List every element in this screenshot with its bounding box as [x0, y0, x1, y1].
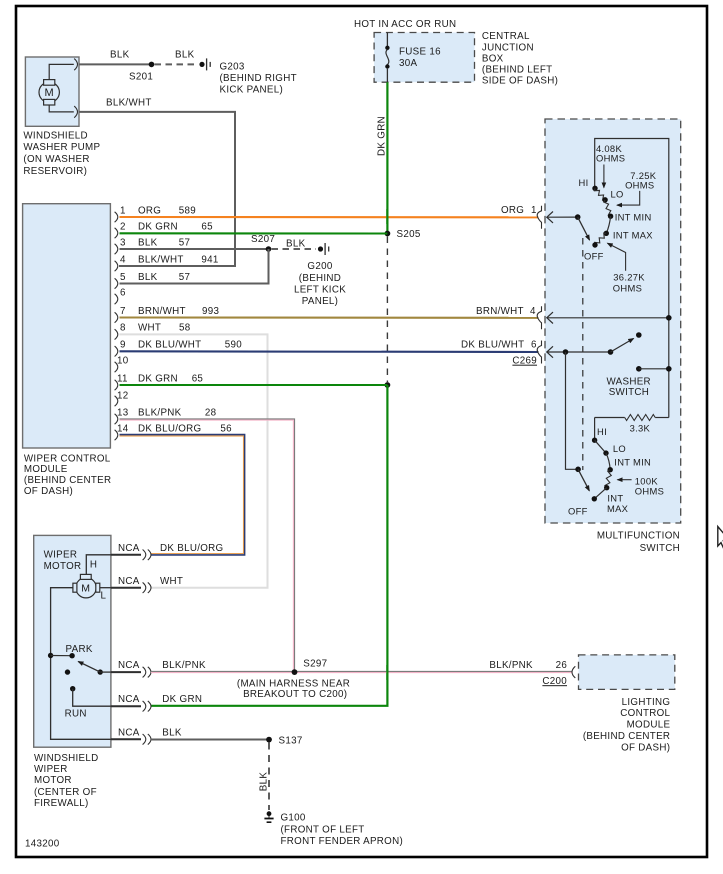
svg-text:DK GRN: DK GRN — [377, 116, 388, 156]
svg-text:10: 10 — [117, 355, 129, 366]
svg-text:S137: S137 — [279, 736, 303, 747]
svg-text:NCA: NCA — [118, 660, 140, 671]
svg-text:NCA: NCA — [118, 694, 140, 705]
MFS connector bumps C269 — [537, 206, 541, 364]
svg-text:(BEHIND CENTER: (BEHIND CENTER — [583, 731, 670, 742]
svg-text:13: 13 — [117, 407, 129, 418]
svg-text:993: 993 — [202, 306, 219, 317]
svg-text:MOTOR: MOTOR — [44, 561, 82, 572]
contact INT MIN (lower) — [608, 467, 613, 472]
svg-text:56: 56 — [220, 423, 232, 434]
svg-text:KICK PANEL): KICK PANEL) — [220, 85, 284, 96]
wire BLK/WHT pump to module pin 4 — [79, 112, 235, 266]
svg-text:BLK: BLK — [110, 49, 130, 60]
link INT MAX-OFF (lower) — [594, 488, 606, 499]
svg-text:LO: LO — [611, 189, 624, 200]
svg-text:INT MAX: INT MAX — [613, 230, 653, 241]
ground G100 — [264, 811, 273, 822]
multifunction switch dashed box — [545, 119, 681, 523]
fuse 16 30A — [385, 33, 389, 83]
svg-text:L: L — [101, 591, 107, 602]
svg-text:BLK: BLK — [259, 772, 270, 792]
svg-text:11: 11 — [117, 373, 128, 384]
contact OFF (upper) — [592, 242, 597, 247]
svg-text:(BEHIND: (BEHIND — [299, 273, 341, 284]
svg-text:57: 57 — [179, 272, 191, 283]
svg-text:7: 7 — [120, 306, 126, 317]
svg-text:30A: 30A — [399, 58, 417, 69]
wire BLK motor to S137 — [151, 739, 267, 741]
junction dot right rail pin4 — [666, 315, 672, 321]
resistor INT MAX-OFF — [595, 233, 607, 245]
svg-text:M: M — [45, 87, 54, 99]
svg-text:DK GRN: DK GRN — [162, 694, 202, 705]
svg-text:C200: C200 — [542, 676, 567, 687]
svg-text:(BEHIND CENTER: (BEHIND CENTER — [24, 475, 111, 486]
svg-text:INT MIN: INT MIN — [615, 212, 652, 223]
svg-text:CONTROL: CONTROL — [620, 708, 670, 719]
wire: motor top lead — [49, 64, 74, 79]
svg-text:58: 58 — [179, 323, 191, 334]
pin 13 wire BLK/PNK 28 to S297 — [120, 419, 295, 670]
pump connector pin bottom — [74, 106, 77, 118]
resistor LO-INT MIN — [604, 200, 611, 216]
wire BLK dashed S207 to G200 — [272, 248, 317, 250]
svg-text:HOT IN ACC OR RUN: HOT IN ACC OR RUN — [354, 19, 456, 30]
wiper motor box — [34, 535, 111, 747]
wire: motor bottom lead — [49, 105, 74, 112]
svg-text:S297: S297 — [303, 658, 327, 669]
wire H terminal to box edge — [86, 555, 111, 575]
module pin connectors 1-14 — [115, 212, 118, 440]
svg-text:OFF: OFF — [584, 250, 604, 261]
svg-text:ORG: ORG — [501, 205, 524, 216]
svg-text:941: 941 — [201, 254, 218, 265]
svg-text:BLK: BLK — [175, 49, 195, 60]
pin 14 wire DK BLU/ORG 56 to motor — [120, 435, 245, 555]
svg-text:PANEL): PANEL) — [302, 296, 338, 307]
svg-text:4: 4 — [120, 254, 126, 265]
splice S207 — [266, 246, 272, 252]
svg-text:OHMS: OHMS — [635, 486, 664, 497]
wire pin6 branch down to lower arm pivot — [566, 352, 579, 469]
pin 5 wire BLK 57 to S207 — [120, 249, 269, 284]
svg-text:12: 12 — [117, 391, 129, 402]
svg-text:14: 14 — [117, 423, 129, 434]
MFS pin 6 arrow + wire to washer switch — [547, 346, 611, 357]
svg-text:LIGHTING: LIGHTING — [622, 697, 671, 708]
pin 7 wire BRN/WHT 993 — [120, 316, 539, 318]
svg-text:8: 8 — [120, 323, 126, 334]
svg-text:36.27K: 36.27K — [613, 272, 645, 283]
wiper control module box — [23, 204, 111, 448]
svg-text:6: 6 — [531, 340, 537, 351]
svg-text:DK GRN: DK GRN — [138, 373, 178, 384]
svg-text:(BEHIND RIGHT: (BEHIND RIGHT — [220, 73, 297, 84]
svg-text:28: 28 — [205, 407, 217, 418]
svg-text:3: 3 — [120, 237, 126, 248]
svg-text:OHMS: OHMS — [596, 153, 625, 164]
wire DK GRN down to wiper motor — [151, 385, 388, 706]
svg-text:OF DASH): OF DASH) — [621, 742, 670, 753]
svg-text:BLK: BLK — [138, 237, 158, 248]
svg-text:WIPER: WIPER — [44, 550, 78, 561]
svg-text:SWITCH: SWITCH — [609, 387, 649, 398]
svg-text:589: 589 — [179, 205, 196, 216]
wire 3.3K to HI (lower) — [594, 418, 596, 441]
svg-text:WIPER: WIPER — [34, 764, 68, 775]
central junction box (dashed) — [374, 33, 474, 83]
resistor HI-LO — [595, 188, 606, 200]
park/run switch — [48, 653, 53, 658]
svg-text:6: 6 — [120, 287, 126, 298]
svg-text:NCA: NCA — [118, 576, 140, 587]
svg-text:(ON WASHER: (ON WASHER — [23, 154, 89, 165]
ground G200 — [318, 243, 329, 255]
MFS pin 1 arrow + wire to switch arm pivot — [547, 212, 578, 223]
svg-text:M: M — [81, 583, 90, 595]
resistor 3.3K — [595, 417, 625, 419]
pin 9 wire DK BLU/WHT 590 — [120, 350, 539, 353]
svg-text:(FRONT OF LEFT: (FRONT OF LEFT — [281, 824, 365, 835]
svg-text:FUSE 16: FUSE 16 — [399, 47, 441, 58]
wiper motor M2 — [73, 574, 100, 598]
svg-text:1: 1 — [531, 205, 537, 216]
lighting control module box (dashed) — [579, 655, 675, 690]
svg-text:3.3K: 3.3K — [630, 423, 651, 434]
svg-text:BLK/WHT: BLK/WHT — [106, 97, 152, 108]
svg-text:65: 65 — [201, 221, 213, 232]
svg-text:BRN/WHT: BRN/WHT — [476, 306, 524, 317]
wire DK GRN crossing overlay at BLK/PNK row — [386, 665, 388, 680]
contact LO (lower) — [603, 450, 608, 455]
wire loop: HI up over to right rail — [595, 139, 669, 418]
svg-text:DK BLU/ORG: DK BLU/ORG — [160, 543, 223, 554]
svg-text:RESERVOIR): RESERVOIR) — [23, 166, 87, 177]
svg-text:HI: HI — [579, 177, 589, 188]
svg-text:DK GRN: DK GRN — [138, 221, 178, 232]
svg-text:WINDSHIELD: WINDSHIELD — [34, 753, 99, 764]
pin 11 wire DK GRN 65 — [120, 384, 388, 386]
wire BLK/PNK motor to C200 — [151, 671, 573, 673]
contact HI (lower) — [592, 438, 597, 443]
svg-text:(MAIN HARNESS NEAR: (MAIN HARNESS NEAR — [237, 678, 350, 689]
contact LO (upper) — [602, 197, 607, 202]
svg-text:SIDE OF DASH): SIDE OF DASH) — [482, 76, 558, 87]
wire BLK dashed S201 to G203 — [155, 63, 199, 65]
washer switch arm — [608, 349, 614, 355]
svg-text:LO: LO — [613, 443, 626, 454]
svg-text:(BEHIND LEFT: (BEHIND LEFT — [482, 65, 553, 76]
svg-text:FRONT FENDER APRON): FRONT FENDER APRON) — [281, 836, 404, 847]
splice S201 — [149, 62, 155, 68]
contact INT MAX (lower) — [604, 485, 609, 490]
svg-text:65: 65 — [192, 373, 204, 384]
pin 3 wire BLK 57 to S207 — [120, 248, 269, 250]
washer switch fixed contact — [636, 366, 642, 372]
contact INT MIN (upper) — [608, 214, 613, 219]
svg-text:BLK: BLK — [138, 272, 158, 283]
contact INT MAX (upper) — [604, 231, 609, 236]
svg-text:OF DASH): OF DASH) — [24, 486, 73, 497]
svg-text:LEFT KICK: LEFT KICK — [294, 284, 346, 295]
svg-text:DK BLU/WHT: DK BLU/WHT — [138, 340, 201, 351]
svg-text:590: 590 — [225, 340, 242, 351]
svg-text:G200: G200 — [307, 261, 332, 272]
ground G203 — [199, 58, 210, 70]
svg-text:RUN: RUN — [65, 709, 87, 720]
wiper switch arm (lower) — [575, 467, 581, 473]
C200 connector arc — [572, 666, 575, 678]
svg-text:CENTRAL: CENTRAL — [482, 31, 530, 42]
wiper switch arm (upper) — [575, 214, 581, 220]
contact HI (upper) — [592, 186, 597, 191]
svg-text:BOX: BOX — [482, 53, 504, 64]
windshield washer pump box — [25, 57, 79, 126]
svg-text:OHMS: OHMS — [613, 283, 642, 294]
svg-text:WHT: WHT — [138, 323, 161, 334]
link LO-INT MIN (lower) — [606, 453, 610, 470]
svg-text:JUNCTION: JUNCTION — [482, 42, 534, 53]
wire dashed S205 down — [386, 237, 388, 383]
svg-text:5: 5 — [120, 272, 126, 283]
svg-text:INT MIN: INT MIN — [614, 457, 651, 468]
svg-text:S207: S207 — [251, 234, 275, 245]
wire L terminal to box edge — [100, 587, 111, 589]
wire DK GRN fuse down to S205 — [386, 82, 388, 233]
svg-text:BLK/WHT: BLK/WHT — [138, 254, 184, 265]
svg-text:PARK: PARK — [66, 644, 93, 655]
pin 1 wire ORG 589 — [120, 216, 539, 218]
svg-text:H: H — [90, 559, 97, 570]
svg-text:BLK/PNK: BLK/PNK — [162, 660, 206, 671]
wire BLK pump to S201 — [79, 63, 152, 65]
svg-text:NCA: NCA — [118, 543, 140, 554]
svg-text:MODULE: MODULE — [24, 464, 68, 475]
svg-text:MULTIFUNCTION: MULTIFUNCTION — [597, 531, 680, 542]
svg-text:WHT: WHT — [160, 576, 183, 587]
svg-text:BLK/PNK: BLK/PNK — [138, 407, 182, 418]
svg-text:BLK/PNK: BLK/PNK — [489, 660, 533, 671]
svg-text:(CENTER OF: (CENTER OF — [34, 787, 97, 798]
svg-text:NCA: NCA — [118, 727, 140, 738]
svg-text:9: 9 — [120, 340, 126, 351]
svg-text:C269: C269 — [512, 356, 537, 367]
100K label + pointer — [618, 479, 632, 481]
park/run switch arm — [98, 669, 103, 674]
washer pump motor M1 — [39, 80, 59, 105]
svg-text:57: 57 — [179, 237, 191, 248]
splice S297 — [292, 669, 298, 675]
svg-text:G100: G100 — [281, 812, 306, 823]
svg-text:BRN/WHT: BRN/WHT — [138, 306, 186, 317]
svg-text:SWITCH: SWITCH — [640, 543, 680, 554]
svg-text:FIREWALL): FIREWALL) — [34, 798, 89, 809]
mechanical link (dashed) — [582, 238, 584, 470]
svg-text:HI: HI — [597, 426, 607, 437]
svg-text:S201: S201 — [129, 72, 153, 83]
wire BLK dashed S137 to G100 — [268, 743, 270, 811]
svg-text:26: 26 — [556, 660, 568, 671]
unused middle contact — [65, 669, 70, 674]
pin 8 wire WHT 58 down to motor — [120, 334, 268, 587]
svg-text:MOTOR: MOTOR — [34, 775, 72, 786]
svg-text:OFF: OFF — [568, 506, 588, 517]
svg-text:MAX: MAX — [607, 503, 629, 514]
wire motor left brush to park/run common — [51, 588, 111, 740]
contact OFF (lower) — [592, 496, 597, 501]
svg-text:BREAKOUT TO C200): BREAKOUT TO C200) — [243, 689, 347, 700]
svg-text:OHMS: OHMS — [625, 180, 654, 191]
svg-text:WINDSHIELD: WINDSHIELD — [23, 130, 88, 141]
link INT MIN to INT MAX — [606, 216, 610, 233]
pin 2 wire DK GRN 65 — [120, 232, 388, 234]
svg-text:WASHER PUMP: WASHER PUMP — [23, 142, 100, 153]
splice S137 — [266, 737, 272, 743]
svg-text:MODULE: MODULE — [627, 720, 671, 731]
junction dot pin11 row — [385, 382, 391, 388]
svg-text:WIPER CONTROL: WIPER CONTROL — [24, 453, 111, 464]
svg-text:ORG: ORG — [138, 205, 161, 216]
resistor 36.27K label + pointer — [608, 243, 626, 271]
svg-text:BLK: BLK — [286, 239, 306, 250]
svg-text:1: 1 — [120, 205, 126, 216]
svg-text:DK BLU/ORG: DK BLU/ORG — [138, 423, 201, 434]
svg-text:4: 4 — [530, 306, 536, 317]
svg-text:INT: INT — [607, 493, 623, 504]
svg-text:2: 2 — [120, 221, 126, 232]
NCA stubs and connectors — [111, 555, 141, 740]
contact RUN — [70, 686, 75, 691]
resistor 100K INT MIN-INT MAX — [605, 470, 611, 488]
mouse cursor — [718, 527, 723, 549]
MFS pin 4 arrow + wire to right rail — [547, 312, 669, 323]
splice S205 — [385, 231, 391, 237]
svg-text:S205: S205 — [397, 229, 421, 240]
pump connector pin top — [74, 59, 77, 71]
contact PARK — [69, 653, 74, 658]
wire DK GRN crossing overlays — [386, 209, 388, 224]
svg-text:143200: 143200 — [25, 839, 60, 850]
junction dot pin6 branch — [563, 349, 569, 355]
link HI-LO (lower) — [595, 440, 606, 453]
svg-text:BLK: BLK — [162, 727, 182, 738]
svg-text:DK BLU/WHT: DK BLU/WHT — [461, 340, 524, 351]
svg-text:G203: G203 — [220, 61, 245, 72]
